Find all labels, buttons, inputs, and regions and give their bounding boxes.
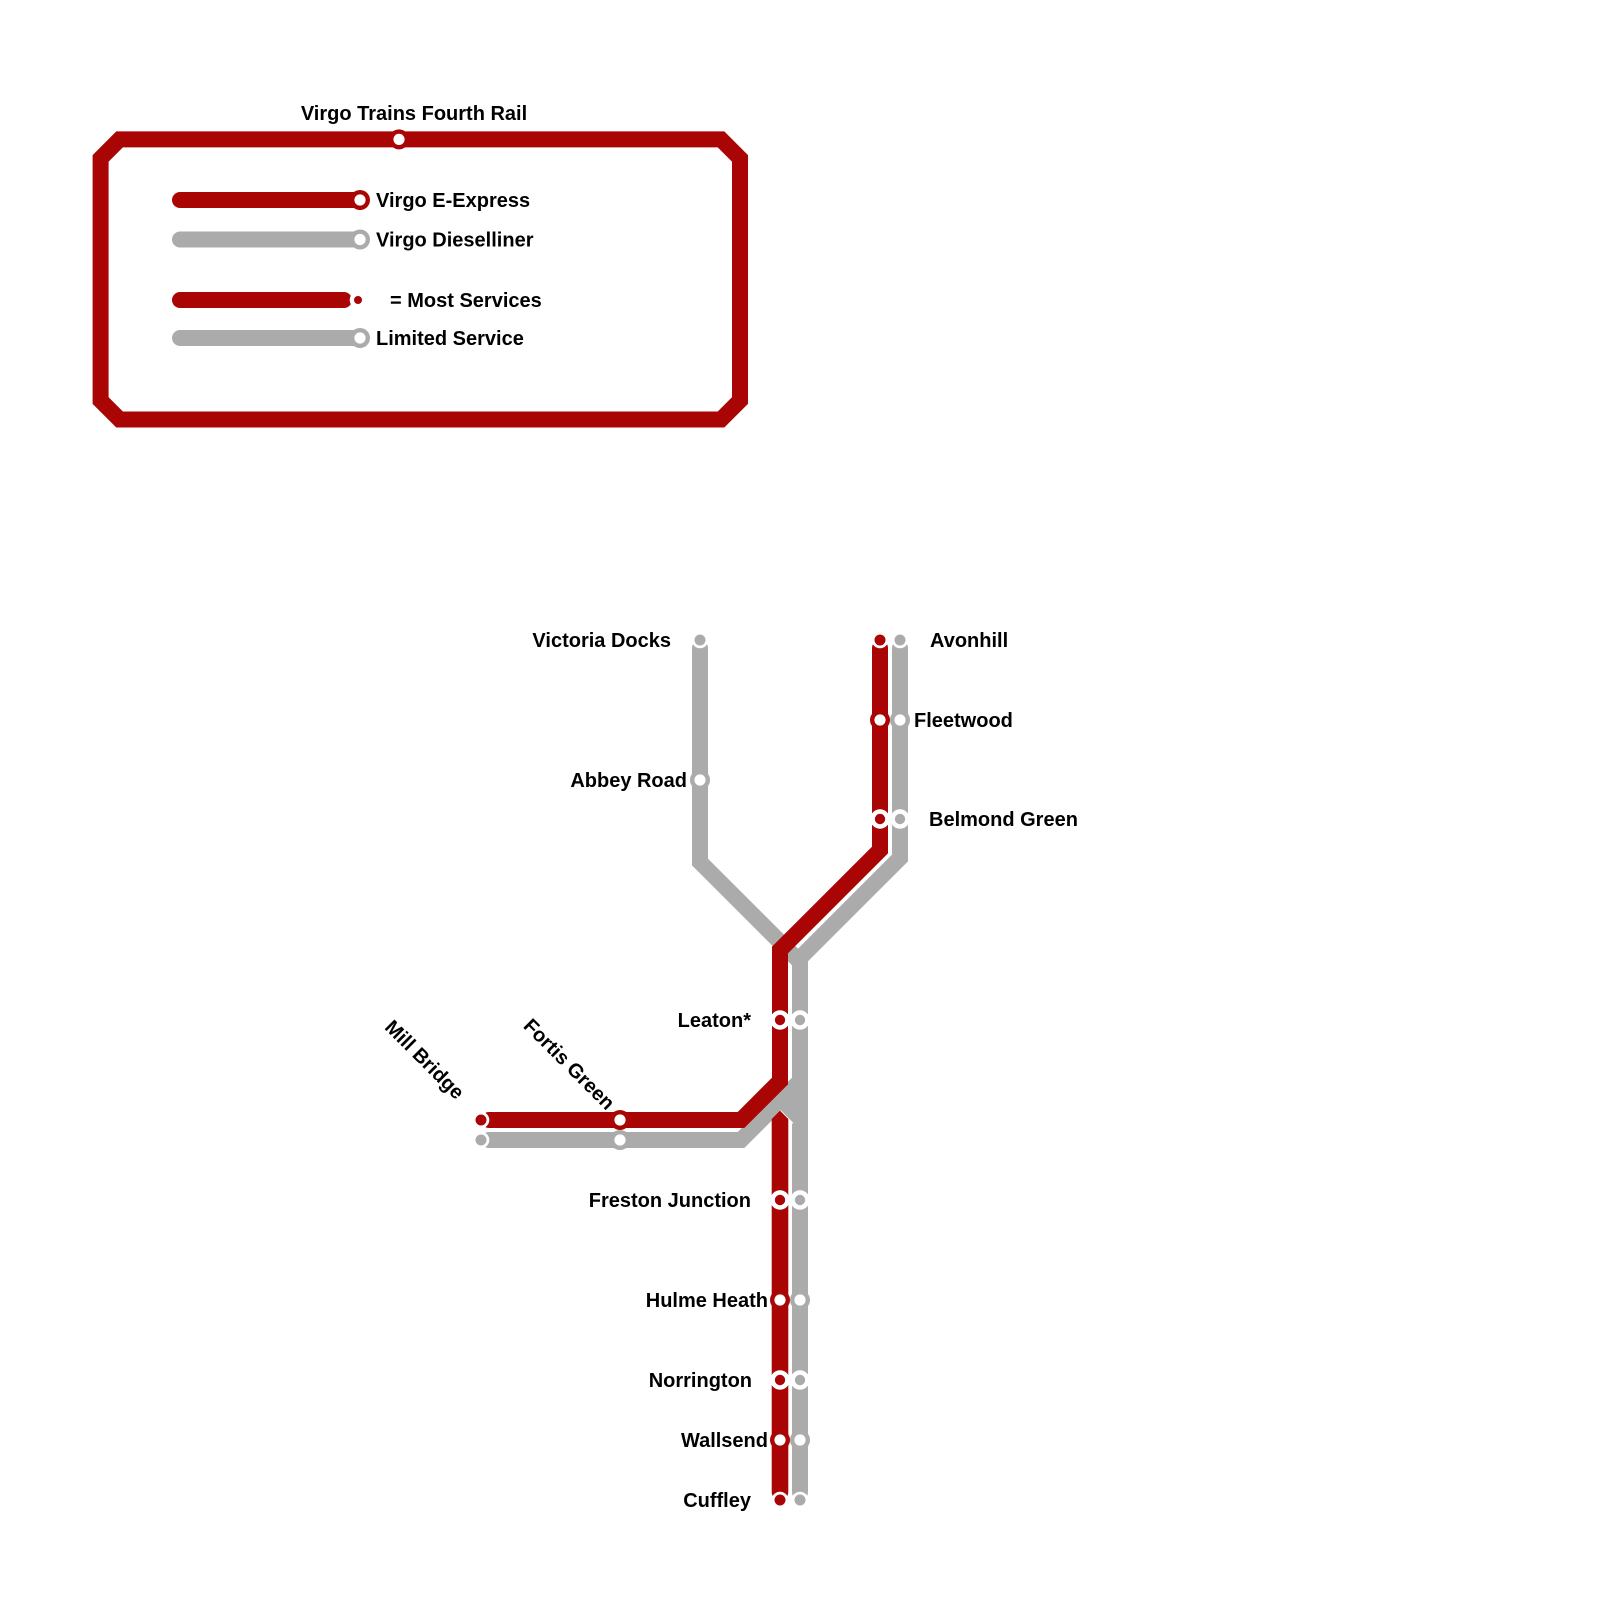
legend row 2 line: Virgo Dieselliner xyxy=(180,232,360,248)
gray junction wedge fill at Freston fork xyxy=(770,1079,792,1124)
station Fortis Green gray marker (ring) xyxy=(610,1130,630,1150)
station Freston Junction gray marker (dot) xyxy=(790,1190,809,1209)
station Leaton gray marker (dot) xyxy=(790,1010,809,1029)
legend row 1 line: Virgo E-Express xyxy=(180,192,360,208)
svg-text:Virgo Trains Fourth Rail: Virgo Trains Fourth Rail xyxy=(301,103,527,125)
station Wallsend gray marker (ring) xyxy=(790,1430,810,1450)
gray line: Dieselliner Avonhill branch xyxy=(800,648,900,958)
station Leaton red marker (dot) xyxy=(770,1010,789,1029)
station Fleetwood gray marker (ring) xyxy=(890,710,910,730)
svg-text:Belmond Green: Belmond Green xyxy=(929,809,1078,831)
station Norrington red marker (dot) xyxy=(770,1370,789,1389)
station Wallsend red marker (ring) xyxy=(770,1430,790,1450)
white casing sliver right of Freston branch apex xyxy=(779,1112,792,1125)
svg-text:Freston Junction: Freston Junction xyxy=(589,1190,751,1212)
station Avonhill gray terminus dot xyxy=(892,632,909,649)
legend row 3 line: Most Services xyxy=(180,292,344,308)
svg-text:Hulme Heath: Hulme Heath xyxy=(646,1290,768,1312)
station Belmond Green red marker (dot) xyxy=(870,809,889,828)
station Cuffley red terminus dot xyxy=(772,1492,789,1509)
svg-text:Limited Service: Limited Service xyxy=(376,328,524,350)
svg-text:Leaton*: Leaton* xyxy=(678,1010,752,1032)
station Fleetwood red marker (ring) xyxy=(870,710,890,730)
gray line: Mill Bridge branch xyxy=(489,1040,800,1140)
station Abbey Road marker (gray ring) xyxy=(690,770,710,790)
svg-text:Cuffley: Cuffley xyxy=(683,1490,752,1512)
svg-text:Wallsend: Wallsend xyxy=(681,1430,768,1452)
svg-text:Norrington: Norrington xyxy=(649,1370,752,1392)
legend row 2 marker (ring style) xyxy=(350,230,370,250)
legend row 4 line: Limited Service xyxy=(180,330,360,346)
legend row 1 marker (ring style) xyxy=(350,190,370,210)
station Hulme Heath red marker (ring) xyxy=(770,1290,790,1310)
station Avonhill red terminus dot xyxy=(872,632,889,649)
legend box border xyxy=(101,139,740,419)
station Cuffley gray terminus dot xyxy=(792,1492,809,1509)
legend row 3 terminus marker (dot style) xyxy=(350,292,367,309)
station Mill Bridge red terminus dot xyxy=(473,1112,490,1129)
legend border station marker (ring style) xyxy=(389,129,409,149)
svg-text:= Most Services: = Most Services xyxy=(390,290,542,312)
legend row 4 marker (ring style) xyxy=(350,328,370,348)
svg-text:Fleetwood: Fleetwood xyxy=(914,710,1013,732)
station Hulme Heath gray marker (ring) xyxy=(790,1290,810,1310)
svg-text:Abbey Road: Abbey Road xyxy=(570,770,687,792)
svg-text:Victoria Docks: Victoria Docks xyxy=(532,630,671,652)
gray line: Dieselliner Victoria Docks branch + main trunk to Cuffley xyxy=(700,648,800,1492)
station Freston Junction red marker (dot) xyxy=(770,1190,789,1209)
station Victoria Docks marker (gray terminus dot) xyxy=(692,632,709,649)
red line: E-Express main Avonhill to Mill Bridge xyxy=(489,648,880,1120)
station Mill Bridge gray terminus dot xyxy=(473,1132,490,1149)
svg-text:Virgo E-Express: Virgo E-Express xyxy=(376,190,530,212)
station Fortis Green red marker (ring) xyxy=(610,1110,630,1130)
red line: E-Express Freston branch to Cuffley (with pointed apex) xyxy=(772,1111,789,1501)
svg-text:Avonhill: Avonhill xyxy=(930,630,1008,652)
svg-text:Virgo Dieselliner: Virgo Dieselliner xyxy=(376,230,534,252)
station Belmond Green gray marker (dot) xyxy=(890,809,909,828)
station Norrington gray marker (dot) xyxy=(790,1370,809,1389)
